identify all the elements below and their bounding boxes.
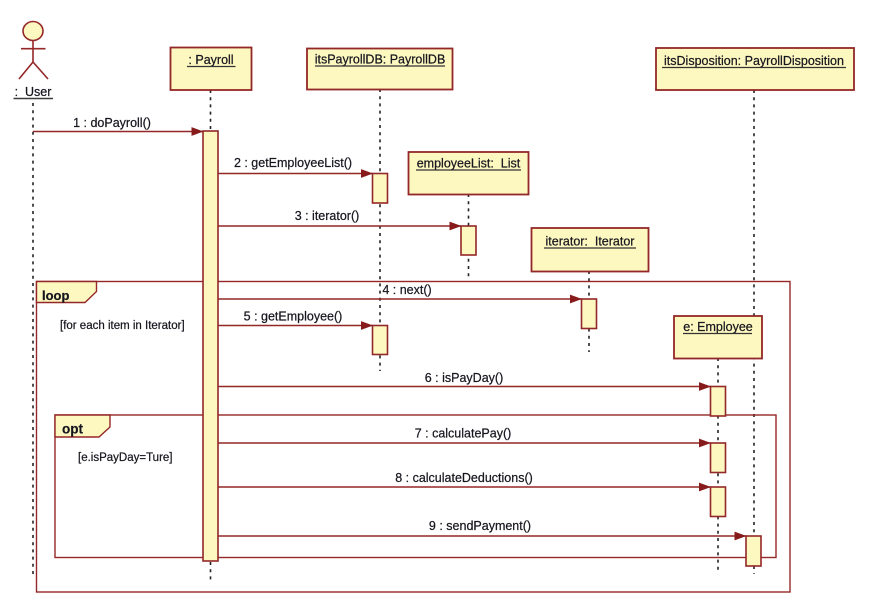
svg-text:loop: loop — [42, 288, 69, 303]
object box e Employee — [674, 316, 762, 359]
message 2 getEmployeeList — [218, 156, 373, 174]
activation Payroll — [203, 131, 218, 561]
activation itsPayrollDB 1 — [373, 174, 388, 204]
lifeline e Employee — [717, 358, 719, 570]
lifeline User — [32, 103, 34, 578]
activation employeeList — [461, 226, 476, 255]
lifeline itsPayrollDB — [379, 89, 381, 371]
svg-text:iterator: Iterator: iterator: Iterator — [546, 235, 635, 249]
fragment opt label pentagon — [55, 415, 110, 437]
message 6 isPayDay — [218, 371, 711, 387]
message 3 iterator — [218, 209, 461, 226]
svg-text:[e.isPayDay=Ture]: [e.isPayDay=Ture] — [78, 452, 173, 464]
activation Employee 1 — [711, 387, 726, 417]
svg-text:[for each item in Iterator]: [for each item in Iterator] — [60, 320, 185, 332]
svg-text:: User: : User — [15, 85, 52, 99]
object box itsDisposition — [656, 48, 854, 90]
lifeline Payroll — [210, 90, 212, 580]
lifeline iterator — [588, 271, 590, 352]
svg-text:9 : sendPayment(): 9 : sendPayment() — [429, 519, 531, 533]
svg-text:: Payroll: : Payroll — [188, 53, 233, 67]
activation Employee 2 — [711, 443, 726, 473]
svg-text:7 : calculatePay(): 7 : calculatePay() — [415, 427, 512, 441]
svg-text:1 : doPayroll(): 1 : doPayroll() — [73, 116, 151, 130]
fragment loop label pentagon — [37, 282, 97, 304]
object box iterator — [532, 228, 649, 272]
svg-text:e: Employee: e: Employee — [683, 320, 753, 334]
svg-text:itsPayrollDB: PayrollDB: itsPayrollDB: PayrollDB — [315, 53, 446, 67]
message 1 doPayroll — [33, 116, 203, 132]
object box Payroll — [171, 48, 252, 91]
fragment opt frame — [55, 415, 776, 558]
message 4 next — [218, 283, 582, 299]
activation Employee 3 — [711, 487, 726, 517]
object box itsPayrollDB — [307, 49, 453, 90]
fragment loop frame — [37, 282, 791, 593]
svg-text:itsDisposition: PayrollDisposi: itsDisposition: PayrollDisposition — [664, 54, 844, 68]
message 9 sendPayment — [218, 519, 746, 536]
svg-text:5 : getEmployee(): 5 : getEmployee() — [244, 310, 343, 324]
svg-text:4 : next(): 4 : next() — [382, 283, 431, 297]
svg-text:2 : getEmployeeList(): 2 : getEmployeeList() — [234, 156, 352, 170]
svg-text:opt: opt — [62, 422, 83, 437]
activation iterator — [582, 299, 597, 329]
svg-text:8 : calculateDeductions(): 8 : calculateDeductions() — [395, 471, 533, 485]
message 8 calculateDeductions — [218, 471, 711, 487]
message 7 calculatePay — [218, 427, 711, 444]
activation itsDisposition — [746, 536, 761, 566]
message 5 getEmployee — [218, 310, 373, 326]
actor User — [14, 22, 54, 100]
svg-text:3 : iterator(): 3 : iterator() — [295, 209, 360, 223]
object box employeeList — [409, 152, 529, 195]
activation itsPayrollDB 2 — [373, 326, 388, 355]
svg-text:employeeList: List: employeeList: List — [417, 157, 521, 171]
lifeline itsDisposition — [753, 90, 755, 574]
lifeline employeeList — [468, 194, 470, 280]
svg-text:6 : isPayDay(): 6 : isPayDay() — [425, 371, 504, 385]
